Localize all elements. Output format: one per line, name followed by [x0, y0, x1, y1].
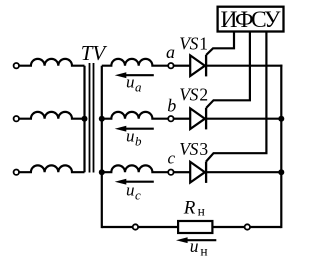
- thyristor VS3 gate wire to IFSU: [206, 32, 266, 162]
- junction primary bus phase b: [82, 116, 88, 122]
- thyristor VS1: [190, 55, 206, 76]
- svg-text:TV: TV: [81, 41, 108, 65]
- svg-text:uc: uc: [126, 180, 141, 202]
- arrow u_n load: [176, 237, 216, 243]
- junction cathode bus phase c: [278, 169, 284, 175]
- wire VS3 cathode to bus: [206, 171, 281, 173]
- wire node c to VS3: [174, 171, 190, 173]
- svg-text:c: c: [168, 149, 176, 168]
- transformer core TV: [90, 63, 94, 173]
- terminal circle phase b input: [14, 116, 19, 121]
- thyristor VS2: [190, 108, 206, 129]
- arrow u_c: [115, 179, 154, 185]
- thyristor VS1 gate wire to IFSU: [206, 32, 234, 56]
- wire bottom load rail: [102, 226, 281, 228]
- svg-text:VS2: VS2: [179, 85, 208, 105]
- thyristor VS3: [190, 162, 206, 183]
- node b circle: [168, 116, 173, 121]
- wire cathode bus to load: [280, 65, 282, 229]
- secondary winding phase c: [102, 165, 168, 172]
- wire secondary bus to load return: [101, 66, 103, 228]
- wire VS1 cathode to bus: [206, 65, 282, 67]
- junction secondary bus phase c: [99, 169, 105, 175]
- terminal circle phase c input: [14, 170, 19, 175]
- secondary winding phase b: [102, 112, 168, 119]
- svg-text:b: b: [167, 96, 176, 116]
- thyristor VS2 gate wire to IFSU: [206, 32, 250, 109]
- svg-text:ИФСУ: ИФСУ: [221, 7, 281, 33]
- junction cathode bus phase b: [278, 116, 284, 122]
- primary winding phase b: [19, 112, 84, 119]
- svg-text:a: a: [166, 42, 175, 62]
- svg-text:VS3: VS3: [179, 139, 208, 159]
- wire node a to VS1: [174, 65, 190, 67]
- svg-text:VS1: VS1: [179, 33, 208, 53]
- node c circle: [168, 170, 173, 175]
- arrow u_b: [115, 126, 154, 132]
- junction secondary bus phase b: [99, 116, 105, 122]
- wire VS2 cathode to bus: [206, 118, 281, 120]
- primary winding phase a: [19, 59, 84, 66]
- resistor R_n: [178, 221, 212, 233]
- wire node b to VS2: [174, 118, 190, 120]
- arrow u_a: [115, 72, 154, 78]
- primary winding phase c: [19, 165, 84, 172]
- terminal circle phase a input: [14, 63, 19, 68]
- wire primary star bus: [83, 66, 85, 173]
- node a circle: [168, 63, 173, 68]
- terminal circle load right: [245, 224, 250, 229]
- terminal circle load left: [133, 224, 138, 229]
- control box IFSU: [218, 7, 284, 32]
- svg-text:Rн: Rн: [183, 198, 205, 219]
- secondary winding phase a: [102, 59, 168, 66]
